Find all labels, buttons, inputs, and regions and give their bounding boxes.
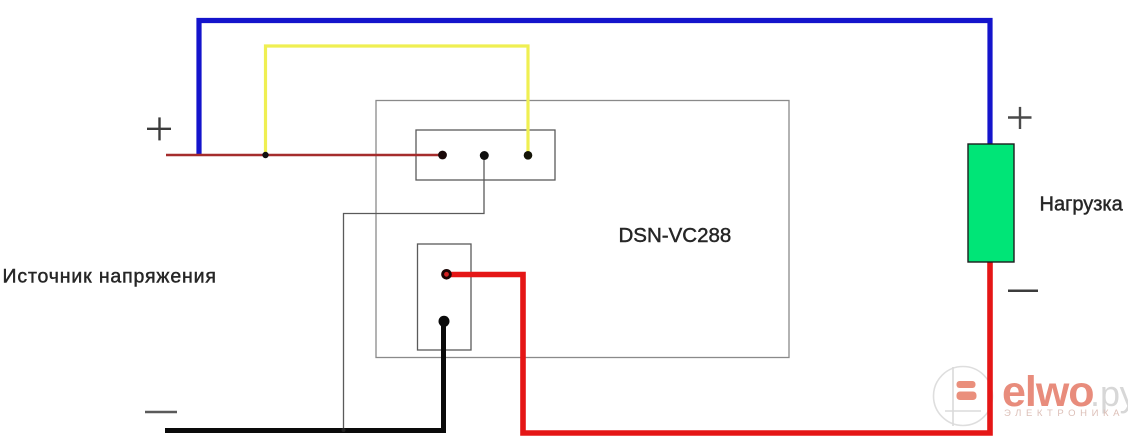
power symbol: + (source)	[147, 117, 171, 140]
node: gray sense wire joins black wire	[342, 428, 346, 432]
pin: current + terminal dot	[441, 269, 452, 280]
elwo.ru watermark logo	[934, 367, 1128, 427]
pin 3 dot	[524, 151, 533, 160]
module DSN-VC288 outline	[376, 101, 789, 358]
node: junction of yellow and red	[262, 152, 268, 158]
pin 1 dot	[438, 151, 447, 160]
svg-text:Нагрузка: Нагрузка	[1040, 194, 1124, 216]
power symbol: - (source)	[145, 411, 177, 414]
lower connector J2 outline	[418, 244, 472, 350]
pin 2 dot	[480, 151, 489, 160]
wire: thick red current path	[447, 262, 990, 433]
resistor: load (Нагрузка)	[968, 144, 1014, 262]
wire: thick black battery minus	[165, 321, 444, 431]
wire: thin red V+ sense	[166, 154, 443, 156]
wire: sense line from middle pin down-left to battery minus	[344, 156, 485, 430]
wire: blue V+ supply (top)	[199, 21, 990, 157]
top connector J1 outline	[416, 130, 555, 180]
wire: yellow measurement line	[266, 46, 529, 154]
power symbol: - (load)	[1008, 290, 1038, 293]
svg-text:Источник напряжения: Источник напряжения	[3, 266, 217, 288]
svg-text:ЭЛЕКТРОНИКА: ЭЛЕКТРОНИКА	[1004, 408, 1124, 419]
power symbol: + (load)	[1008, 107, 1032, 129]
svg-text:DSN-VC288: DSN-VC288	[619, 224, 732, 247]
pin: current - terminal dot	[439, 316, 450, 327]
